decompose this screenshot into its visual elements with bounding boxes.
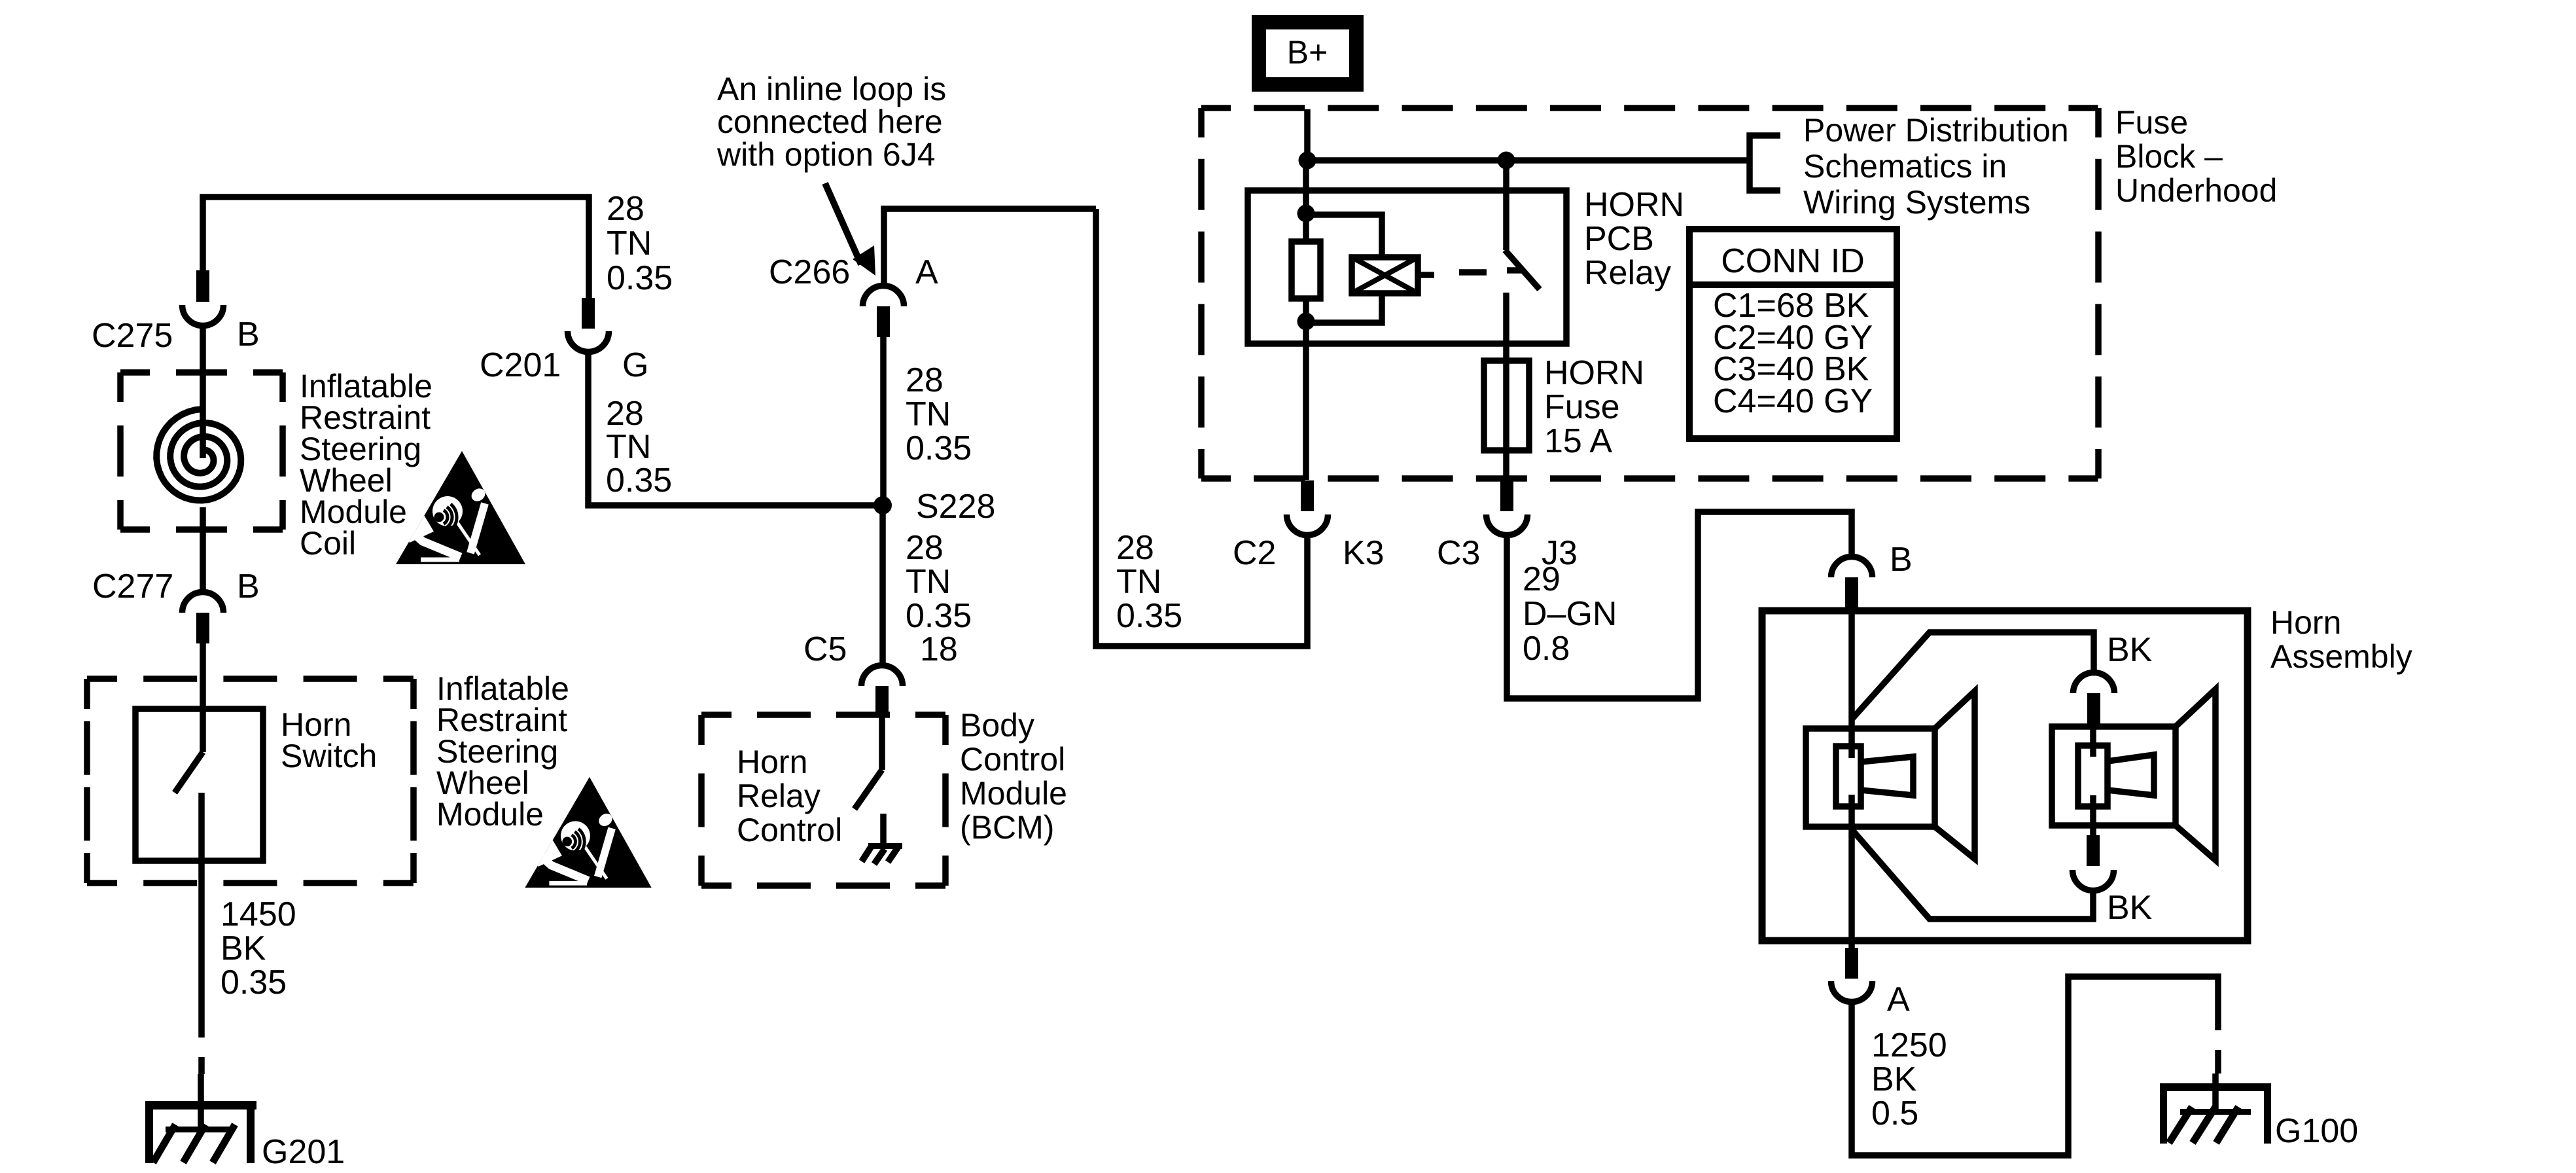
right horn flare bbox=[2176, 689, 2215, 860]
svg-text:A: A bbox=[1887, 981, 1910, 1019]
ground G100 bbox=[2160, 1083, 2358, 1150]
svg-text:0.8: 0.8 bbox=[1523, 630, 1570, 668]
horn assembly box bbox=[1762, 611, 2248, 941]
node dot relay top bbox=[1297, 205, 1315, 223]
svg-text:B+: B+ bbox=[1287, 34, 1328, 71]
ground (BCM internal) bbox=[862, 814, 902, 864]
wire C277 to horn switch bbox=[200, 643, 206, 752]
svg-text:28: 28 bbox=[606, 395, 644, 433]
connector C275 bbox=[92, 270, 260, 355]
svg-text:Module: Module bbox=[436, 796, 544, 833]
ground G201 bbox=[145, 1101, 345, 1171]
bracket power distribution bbox=[1750, 135, 1780, 190]
horn switch blade bbox=[175, 752, 203, 793]
svg-text:B: B bbox=[237, 316, 260, 353]
svg-text:1250: 1250 bbox=[1871, 1026, 1947, 1064]
svg-text:Horn: Horn bbox=[2270, 604, 2341, 641]
left horn throat bbox=[1861, 757, 1913, 795]
svg-text:C5: C5 bbox=[803, 630, 847, 668]
wire relay switch leg bottom bbox=[1503, 293, 1509, 480]
wire left horn main bbox=[1848, 608, 1855, 950]
wire C275 to coil bbox=[200, 327, 206, 458]
svg-text:BK: BK bbox=[2107, 631, 2153, 669]
connector C2 / K3 pin bbox=[1233, 480, 1385, 572]
svg-text:K3: K3 bbox=[1343, 534, 1385, 572]
svg-text:Block –: Block – bbox=[2115, 138, 2223, 175]
wire branch to right horn (top) bbox=[1852, 632, 2094, 719]
wire branch to right horn (bottom) bbox=[1852, 829, 2093, 919]
horn switch box bbox=[135, 709, 263, 861]
svg-text:0.35: 0.35 bbox=[1116, 597, 1182, 635]
svg-text:Fuse: Fuse bbox=[1544, 388, 1620, 426]
svg-text:0.35: 0.35 bbox=[906, 597, 972, 635]
connector C277 bbox=[92, 568, 260, 643]
svg-text:Wiring Systems: Wiring Systems bbox=[1803, 184, 2030, 221]
dashed box: BCM bbox=[701, 712, 945, 718]
horn relay control blade bbox=[855, 770, 882, 809]
svg-text:0.35: 0.35 bbox=[906, 429, 972, 467]
wire label 1250 BK 0.5 bbox=[1871, 1026, 1947, 1132]
coil (clockspring spiral) bbox=[156, 409, 241, 501]
wire C201 to S228 rail bbox=[588, 352, 883, 505]
svg-text:G: G bbox=[622, 346, 648, 384]
wire label 28 TN 0.35 (top, right of C201 corner) bbox=[607, 190, 673, 297]
svg-text:C201: C201 bbox=[480, 346, 561, 384]
label: Inflatable Restraint Steering Wheel Module Coil bbox=[300, 368, 432, 562]
svg-text:PCB: PCB bbox=[1584, 220, 1654, 258]
svg-text:15 A: 15 A bbox=[1544, 422, 1612, 460]
connector A (below horn assembly) bbox=[1831, 948, 1911, 1019]
horn switch lower wire bbox=[198, 793, 205, 1001]
node S228 junction bbox=[873, 496, 892, 514]
svg-text:C3: C3 bbox=[1437, 534, 1480, 572]
wire relay switch leg top bbox=[1503, 160, 1509, 250]
svg-text:G100: G100 bbox=[2275, 1112, 2358, 1150]
connector BK (right horn top) bbox=[2073, 631, 2153, 724]
right horn throat bbox=[2108, 755, 2154, 795]
svg-text:28: 28 bbox=[607, 190, 644, 228]
svg-text:TN: TN bbox=[1116, 563, 1161, 601]
connector C201 bbox=[480, 298, 648, 384]
svg-text:C2: C2 bbox=[1233, 534, 1276, 572]
node junction dot left bbox=[1299, 152, 1316, 170]
svg-text:Power Distribution: Power Distribution bbox=[1803, 112, 2069, 149]
svg-text:Assembly: Assembly bbox=[2270, 638, 2412, 675]
wire top-left rail from C275 up to C201 drop bbox=[203, 197, 589, 298]
right horn driver box bbox=[2052, 727, 2176, 825]
right horn wires through driver bbox=[2090, 724, 2096, 835]
wire C3 to horn assembly B bbox=[1507, 512, 1852, 698]
dashed box: steering wheel module coil bbox=[120, 369, 283, 376]
connector BK (right horn bottom) bbox=[2073, 835, 2153, 927]
B+ terminal box bbox=[1259, 22, 1356, 84]
wire label 1450 BK 0.35 bbox=[221, 895, 296, 1002]
svg-text:28: 28 bbox=[906, 361, 944, 399]
wire C266 rail down-right to C2 bbox=[1096, 209, 1307, 646]
svg-text:TN: TN bbox=[906, 395, 951, 433]
svg-text:C277: C277 bbox=[92, 568, 173, 605]
text: inline loop note bbox=[716, 71, 946, 173]
svg-text:Coil: Coil bbox=[300, 525, 356, 562]
svg-text:C275: C275 bbox=[92, 317, 173, 355]
wire label 28 TN 0.35 (below C201) bbox=[606, 395, 672, 499]
text: Fuse Block - Underhood bbox=[2115, 104, 2277, 209]
connector B (horn assembly) bbox=[1831, 541, 1913, 608]
svg-text:Relay: Relay bbox=[1584, 254, 1671, 292]
left horn flare bbox=[1935, 691, 1975, 859]
dashed box: fuse block underhood bbox=[1201, 105, 2098, 111]
relay switch blade bbox=[1505, 250, 1540, 289]
connector C266 bbox=[769, 253, 938, 337]
svg-text:An inline loop is: An inline loop is bbox=[717, 71, 946, 107]
svg-text:TN: TN bbox=[606, 428, 651, 466]
wire label 29 D-GN 0.8 bbox=[1523, 560, 1617, 668]
dashed wire to G100 bbox=[2215, 994, 2221, 1074]
svg-text:Horn: Horn bbox=[737, 744, 807, 780]
svg-text:connected here: connected here bbox=[717, 103, 943, 140]
svg-text:0.5: 0.5 bbox=[1871, 1094, 1918, 1132]
right horn driver bbox=[2078, 746, 2108, 806]
left horn plate bbox=[1806, 729, 1935, 827]
svg-text:BK: BK bbox=[2107, 889, 2153, 927]
resistor (relay) bbox=[1292, 242, 1320, 298]
dashed box: steering wheel module (horn switch) bbox=[87, 676, 414, 682]
svg-text:A: A bbox=[915, 253, 938, 291]
svg-text:Fuse: Fuse bbox=[2115, 104, 2188, 141]
svg-text:Switch: Switch bbox=[281, 738, 377, 774]
svg-text:0.35: 0.35 bbox=[221, 964, 287, 1002]
svg-text:S228: S228 bbox=[916, 488, 995, 526]
svg-text:Module: Module bbox=[960, 775, 1067, 812]
horn relay control switch wire bbox=[879, 717, 885, 770]
left horn driver bbox=[1836, 746, 1861, 806]
svg-text:C4=40 GY: C4=40 GY bbox=[1713, 382, 1873, 420]
svg-text:28: 28 bbox=[1116, 529, 1154, 567]
fuse HORN 15A bbox=[1484, 361, 1529, 450]
svg-text:with option 6J4: with option 6J4 bbox=[716, 136, 936, 173]
arrow to C266 bbox=[825, 183, 861, 264]
svg-text:CONN ID: CONN ID bbox=[1721, 242, 1865, 280]
label: Inflatable Restraint Steering Wheel Module bbox=[436, 670, 569, 833]
svg-text:Relay: Relay bbox=[737, 778, 820, 814]
connector C3 / J3 pin bbox=[1437, 480, 1578, 572]
svg-text:B: B bbox=[237, 568, 260, 605]
wire C266 to S228 bbox=[880, 337, 887, 505]
svg-text:TN: TN bbox=[607, 225, 652, 262]
svg-text:G201: G201 bbox=[262, 1133, 345, 1171]
svg-text:Underhood: Underhood bbox=[2115, 172, 2277, 209]
svg-text:HORN: HORN bbox=[1584, 186, 1684, 224]
svg-text:HORN: HORN bbox=[1544, 354, 1644, 392]
svg-text:Schematics in: Schematics in bbox=[1803, 148, 2007, 185]
wire label 28 TN 0.35 (left of C2) bbox=[1116, 529, 1182, 635]
CONN ID table bbox=[1689, 229, 1897, 439]
dashed actuator link bbox=[1418, 272, 1434, 278]
relay K3 box bbox=[1248, 190, 1566, 344]
svg-text:Control: Control bbox=[737, 812, 842, 848]
dashed wire to G201 bbox=[198, 1001, 205, 1074]
svg-text:BK: BK bbox=[1871, 1060, 1917, 1098]
connector C5 bbox=[803, 630, 958, 717]
wire label 28 TN 0.35 (below S228) bbox=[906, 529, 972, 635]
wire rail to power distribution bracket bbox=[1307, 157, 1750, 164]
svg-text:B: B bbox=[1890, 541, 1913, 579]
svg-text:Control: Control bbox=[960, 741, 1065, 778]
svg-text:(BCM): (BCM) bbox=[960, 809, 1054, 846]
svg-text:C266: C266 bbox=[769, 253, 850, 291]
svg-text:28: 28 bbox=[906, 529, 944, 567]
wire relay left leg bbox=[1303, 160, 1309, 480]
svg-text:Body: Body bbox=[960, 707, 1034, 744]
wire label 28 TN 0.35 (below C266) bbox=[906, 361, 972, 467]
svg-text:29: 29 bbox=[1523, 560, 1561, 598]
svg-text:0.35: 0.35 bbox=[606, 461, 672, 499]
svg-text:BK: BK bbox=[221, 929, 266, 967]
svg-text:D–GN: D–GN bbox=[1523, 595, 1617, 633]
relay coil box with X bbox=[1352, 257, 1418, 293]
wire C266 top rail bbox=[884, 209, 1096, 284]
svg-text:18: 18 bbox=[920, 630, 958, 668]
wire A to G100 bbox=[1852, 977, 2218, 1155]
airbag warning triangle 2 bbox=[525, 777, 651, 888]
wire coil to C277 bbox=[200, 507, 206, 590]
svg-text:1450: 1450 bbox=[221, 895, 296, 933]
svg-text:0.35: 0.35 bbox=[607, 259, 673, 297]
wire relay coil branch bbox=[1306, 215, 1382, 323]
svg-text:TN: TN bbox=[906, 563, 951, 601]
node junction dot right bbox=[1498, 152, 1515, 170]
node dot relay bottom bbox=[1297, 313, 1315, 331]
wire B+ down to rail bbox=[1304, 109, 1311, 160]
wire S228 to C5 bbox=[879, 505, 886, 664]
